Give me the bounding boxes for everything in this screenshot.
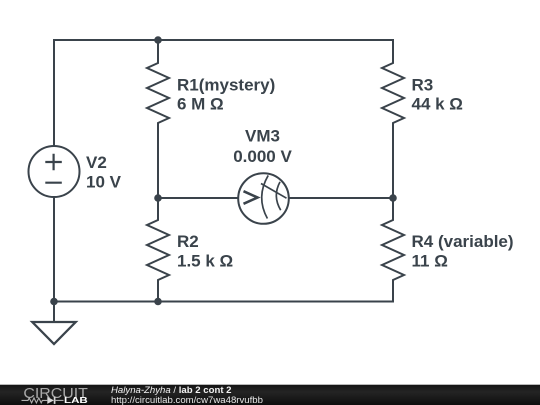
wire top net: V2 to R1 [54, 39, 158, 41]
junction: middle node at R3/R4 [389, 194, 397, 202]
svg-text:44 k Ω: 44 k Ω [412, 95, 463, 114]
wire bottom net: ground to R2 [54, 301, 158, 303]
svg-text:http://circuitlab.com/cw7wa48r: http://circuitlab.com/cw7wa48rvufbb [111, 395, 263, 405]
svg-text:LAB: LAB [64, 396, 88, 405]
svg-text:0.000 V: 0.000 V [233, 147, 292, 166]
svg-text:10 V: 10 V [86, 173, 122, 192]
junction: middle node at R1/R2 [154, 194, 162, 202]
wire left: top of V2 [53, 40, 55, 146]
voltage source V2 [29, 146, 80, 197]
footer bar [0, 385, 540, 405]
logo resistor-diode glyph [22, 397, 64, 404]
svg-text:R2: R2 [177, 232, 199, 251]
svg-text:R1(mystery): R1(mystery) [177, 75, 275, 94]
resistor R2 [147, 198, 169, 302]
svg-text:R4 (variable): R4 (variable) [412, 232, 514, 251]
ground [32, 302, 75, 345]
junction: ground node at R2 [154, 298, 162, 306]
svg-text:6 M Ω: 6 M Ω [177, 95, 224, 114]
svg-text:V2: V2 [86, 153, 107, 172]
svg-text:11 Ω: 11 Ω [412, 251, 448, 270]
wire middle net: VM3 right terminal to R3/R4 node [289, 197, 394, 199]
resistor R3 [382, 40, 404, 198]
svg-text:1.5 k Ω: 1.5 k Ω [177, 251, 233, 270]
svg-text:R3: R3 [412, 75, 434, 94]
wire left: bottom of V2 to ground net [53, 197, 55, 302]
svg-text:VM3: VM3 [245, 127, 280, 146]
wire middle net: R1/R2 node to VM3 left terminal [158, 197, 239, 199]
wire bottom net: R2 to R4 [158, 301, 393, 303]
junction: top node at R1 [154, 36, 162, 44]
wire top net: R1 to R3 [158, 39, 393, 41]
voltmeter VM3 [238, 173, 289, 224]
resistor R4 [382, 198, 404, 302]
junction: ground node at V2 [50, 298, 58, 306]
resistor R1 [147, 40, 169, 198]
